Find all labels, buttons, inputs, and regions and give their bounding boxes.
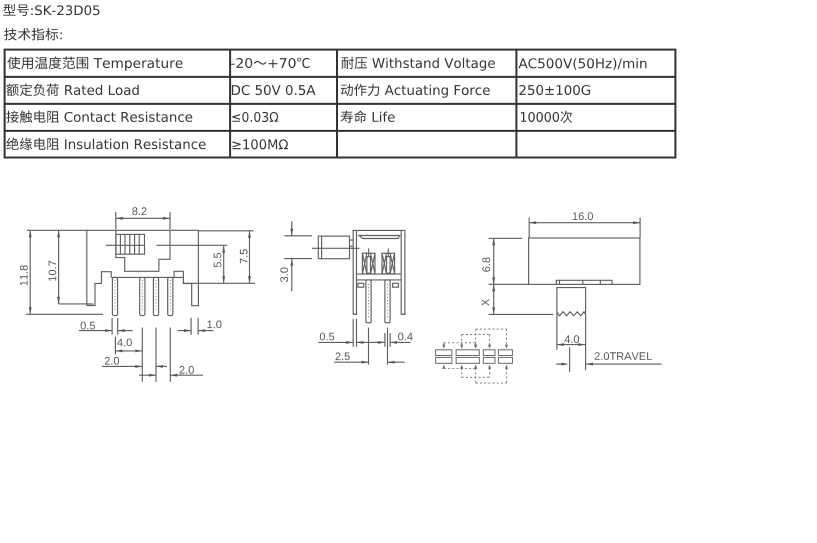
view4 knob serration [557,312,586,316]
view2 contact block 1 [362,253,375,274]
dim 1.0 view1 text [207,320,221,328]
footprint dashed outline large [476,329,507,383]
view2 outer frame [353,230,405,314]
dim 2.0travel text [595,352,652,360]
dim 1.0 view1 [190,318,192,335]
view1 hatch line 4 [134,234,136,254]
view4 knob centerline [569,347,571,372]
dim 5.5 text [214,253,222,267]
view2 left foot tab [358,283,364,287]
cell withstand voltage label [342,57,495,71]
footprint dashed outline small [444,343,476,369]
header tech-spec text [4,28,62,40]
pad row1 col4 [498,350,512,356]
view1 hatch line 5 [138,234,140,254]
cell contact resistance label [6,111,192,123]
view2 knob centerline [312,247,360,249]
cell insulation resistance label [6,138,205,151]
view1 hatch line 2 [124,234,126,254]
view2 right foot tab [393,283,399,287]
dim 2.0 travel [556,363,567,365]
cell actuating force value [519,85,590,95]
view1 pin 1 [112,277,117,315]
pad row1 col3 [483,350,495,356]
dim 0.4 [384,333,386,347]
view1 actuator hatch box [116,234,145,254]
footprint dashed outline medium [462,334,490,377]
view1 hatch line 3 [129,234,131,254]
view2 pin 2 [385,280,390,323]
dim X text [482,299,490,306]
cell rated load value [232,85,316,95]
dim X [493,284,495,314]
cell life value [521,111,572,123]
dim 0.4 text [398,333,413,341]
view1 pin 4 [168,277,173,315]
view4 body [529,238,640,284]
view2 wall feet [353,313,356,315]
dim 11.8 [27,229,87,231]
dim 4.0 view1 [114,337,116,355]
dim 7.5 [198,230,253,232]
dim 2.0 view1 a text [105,357,119,365]
dim 2.5 text [336,352,350,360]
cell temperature label [7,57,182,71]
dim 0.5 view2 text [320,333,334,341]
dim 0.5 view1 text [81,322,95,330]
view2 knob [318,236,349,259]
dim 11.8 text [20,265,28,285]
view1 pin 3 [153,277,158,315]
pad row2 col2 [456,357,479,363]
spec table grid [5,50,676,158]
view2 knob connector [350,239,354,241]
view4 knob [557,288,586,371]
pad row2 col4 [498,357,512,363]
dim 6.8 text [482,258,490,272]
dim 0.5 view1 [111,318,113,335]
cell withstand voltage value [519,58,647,70]
pad row1 col1 [436,350,452,356]
dim 3.0 [284,235,312,237]
cell contact resistance value [232,112,278,122]
dim 16.0 [528,218,530,238]
view1 top block (8.2 wide) [116,230,170,271]
view2 cavity top bevel [359,236,400,239]
dim 4.0 view4 text [565,335,580,343]
pad row2 col1 [436,357,452,363]
cell actuating force label [341,84,490,98]
dim 2.0 view1 b text [180,366,194,374]
dim 6.8 [489,237,523,239]
view2 base bar [357,273,402,275]
pad row1 col2 [456,350,479,356]
dim 0.5 view2 [352,319,354,347]
view4 slider slot bar [556,280,612,284]
dim 4.0 view1 text [117,339,132,347]
dim 2.0 view1 b [169,328,171,382]
pad row2 col3 [483,357,495,363]
dim 4.0 view4 [557,344,586,346]
dim 10.7 [58,230,60,304]
view1 body outline [87,230,199,305]
view1 slot centerline left [106,244,145,246]
header model text [3,4,99,16]
dim 5.5 [223,246,225,283]
dim 7.5 text [240,249,248,263]
dim 8.2 [115,212,117,230]
dim 8.2 text [132,207,146,215]
view1 base bottom edge [111,276,183,278]
dim 16.0 text [573,212,593,220]
cell life label [341,110,395,123]
cell temperature value [231,58,310,68]
view2 pin 1 [366,280,371,323]
cell insulation resistance value [232,139,288,149]
view1 pin 2 [140,277,145,315]
cell rated load label [6,84,138,96]
view2 contact block 2 [382,253,395,274]
dim 2.0 view1 a [155,328,157,382]
dim 10.7 text [49,261,57,281]
dim 2.5 [368,328,370,365]
view1 slot centerline right [157,244,228,246]
view1 hatch line 1 [119,234,121,254]
dim 3.0 text [280,268,288,283]
